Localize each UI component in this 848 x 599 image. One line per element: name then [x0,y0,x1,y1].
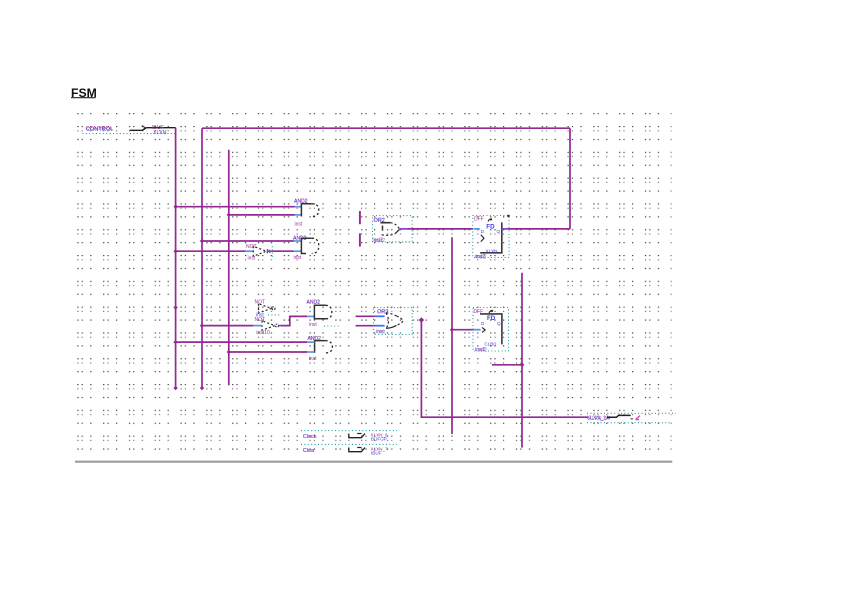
wire vertical at 452 [451,237,453,434]
svg-text:Clock: Clock [303,434,317,440]
wire U4 output to FD1 D [399,228,408,230]
node Clock label [301,431,397,442]
inverter U7 NOT [255,317,279,336]
svg-text:inst2: inst2 [476,254,487,260]
wire B to AND2 b input [229,214,295,216]
svg-text:inst2: inst2 [375,238,386,244]
wire to FD2 input [452,329,474,331]
svg-text:CONTROL: CONTROL [86,126,113,132]
and-gate U8 AND2 (third) [307,299,341,328]
wire C through inverter [176,250,246,252]
node junction V2-D [200,239,204,243]
cyan selection dots under CONTROL net [82,133,175,135]
svg-text:inst: inst [294,255,302,261]
svg-text:Clea: Clea [303,448,314,454]
wire AND4 input b [229,351,307,353]
svg-text:inst: inst [309,322,317,328]
net label output right [587,413,677,422]
wire FD1 Q output [502,228,508,230]
wire CONTROL input (black) with jog [130,128,176,131]
or-gate U10 OR2 (lower) with selection box [374,308,413,336]
wire U7 output to AND2 d [279,325,281,327]
inverter U6 NOT (floating) [255,299,281,318]
and-gate U1 AND2 (top) [294,199,319,228]
wire feedback top horizontal [202,127,570,129]
wire vertical V1 from CONTROL [175,128,177,388]
svg-text:inst: inst [295,222,303,228]
buffer IBUF symbol [349,448,365,452]
wire stub bar1 (or input a) [359,211,361,224]
wire from junction down and right to output label [421,320,587,417]
wire stub bar2 (or input b) [359,233,361,246]
node junction 452 to FD2 [450,328,454,332]
and-gate U3 AND2 (second) [293,235,319,260]
wire feedback right vertical [569,128,571,229]
node junction V3-B [227,213,231,217]
or-gate U4 OR2 with selection box [373,216,413,244]
svg-text:inst2: inst2 [476,347,487,353]
wire tip V2 [200,386,204,390]
node junction V1 [173,340,177,344]
svg-text:inst: inst [248,255,256,261]
svg-text:IBUF: IBUF [371,451,382,456]
node Clear label [301,444,397,455]
buffer IBUF label [152,125,167,136]
node junction 522 [520,362,525,367]
wire into U7 [202,325,253,327]
wire OR2b input b [356,325,375,327]
svg-text:inst10: inst10 [256,330,270,336]
node junction V1-C [173,249,177,253]
wire tip V1 [173,386,177,390]
svg-text:inst: inst [378,330,386,336]
node junction V3 [227,350,231,354]
wire vertical at 522 [521,273,523,448]
svg-text:FD: FD [486,223,495,230]
buffer BUFGP symbol [349,434,365,438]
wire under FD2 to v522 [492,364,522,366]
wire A to AND2 a input [176,206,295,208]
wire AND4 input a [176,341,308,343]
node junction V1-A [173,205,177,209]
svg-text:NOT: NOT [255,317,266,323]
inverter U2 NOT on wire C [246,244,272,261]
svg-text:NOT: NOT [246,244,257,250]
wire OR2b input a [356,315,375,317]
grid dots [75,113,672,457]
bottom sheet border rule [75,461,672,463]
svg-text:DFF: DFF [474,217,484,223]
svg-text:inst: inst [309,356,317,362]
svg-text:XLXN: XLXN [153,130,167,136]
flip-flop U11 FD (lower) with selection box [473,308,509,354]
node junction J-OR2b output [419,317,424,322]
flip-flop U5 FD with selection box [473,216,509,261]
svg-text:CLB0: CLB0 [484,341,496,346]
wire D to AND2 c input [202,240,294,242]
svg-text:XLXN_14: XLXN_14 [588,416,610,422]
node junction V2 [200,323,204,327]
and-gate U9 AND2 (fourth) [307,336,332,362]
wire vertical V3 [228,150,230,385]
wire feedback left vertical V2 [201,128,203,388]
node CONTROL label [86,126,114,133]
svg-text:Q: Q [497,229,501,234]
svg-text:XLXN: XLXN [486,248,498,253]
svg-text:FD: FD [487,315,496,322]
node junction V1 (dangling) [173,305,177,309]
svg-text:BUFGP: BUFGP [371,437,387,442]
svg-text:Q: Q [497,321,501,326]
node FD1 box corner mark [507,215,509,217]
